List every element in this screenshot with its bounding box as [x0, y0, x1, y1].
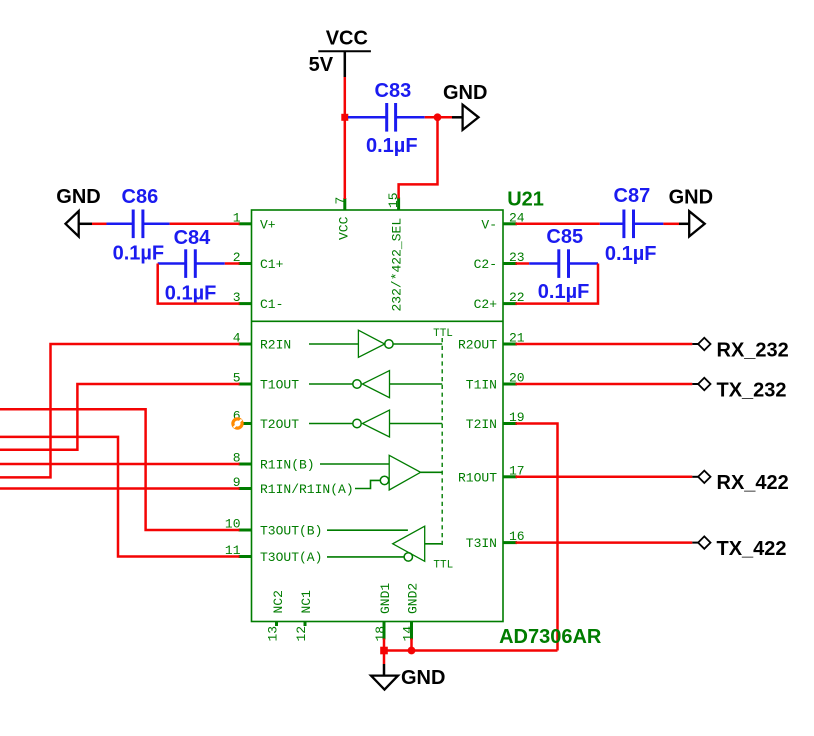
wire junction down to ground symbol: [383, 651, 386, 665]
svg-text:TX_422: TX_422: [717, 538, 787, 560]
pin 9 R1IN/R1IN(A): [233, 475, 354, 497]
svg-text:C2-: C2-: [474, 257, 497, 272]
svg-text:AD7306AR: AD7306AR: [499, 626, 602, 648]
svg-text:RX_422: RX_422: [717, 472, 789, 494]
svg-text:R1OUT: R1OUT: [458, 470, 497, 485]
svg-text:GND1: GND1: [378, 583, 393, 614]
svg-text:14: 14: [400, 626, 415, 642]
svg-text:12: 12: [294, 626, 309, 642]
svg-text:C85: C85: [546, 226, 583, 248]
svg-text:C87: C87: [614, 185, 651, 207]
op-amp U21 body (IC box AD7306AR): [252, 210, 504, 622]
pin 14 GND2 (bottom): [400, 583, 420, 642]
svg-text:R1IN/R1IN(A): R1IN/R1IN(A): [260, 482, 354, 497]
pin 19 T2IN: [466, 410, 525, 432]
wire pin 11 to left edge: [0, 437, 240, 557]
svg-text:VCC: VCC: [337, 216, 352, 240]
svg-text:U21: U21: [507, 188, 544, 210]
svg-text:C2+: C2+: [474, 297, 498, 312]
pin 3 C1-: [233, 290, 284, 312]
wire junction down to pin 15: [399, 117, 438, 198]
pin 11 T3OUT(A): [225, 543, 323, 565]
svg-text:T1IN: T1IN: [466, 378, 497, 393]
wire pin 21 to RX_232 connector: [516, 343, 693, 346]
wire pin 23 to C85: [516, 262, 530, 265]
net connector diamond TX_422: [692, 536, 786, 560]
pin 8 R1IN(B): [233, 451, 315, 473]
wire pin 16 to TX_422 connector: [516, 541, 693, 544]
ground rail wire: [384, 649, 558, 652]
svg-text:0.1µF: 0.1µF: [538, 281, 590, 303]
wire C84 right to pin 2: [225, 262, 240, 265]
capacitor C85: [529, 226, 598, 303]
svg-text:NC1: NC1: [299, 590, 314, 614]
svg-text:T3OUT(A): T3OUT(A): [260, 550, 322, 565]
pin 18 GND1 (bottom): [373, 583, 393, 642]
svg-text:T2OUT: T2OUT: [260, 417, 299, 432]
pin 2 C1+: [233, 250, 284, 272]
svg-text:T3IN: T3IN: [466, 536, 497, 551]
svg-text:C84: C84: [174, 227, 212, 249]
svg-text:V+: V+: [260, 217, 276, 232]
svg-text:R2IN: R2IN: [260, 338, 291, 353]
svg-text:T1OUT: T1OUT: [260, 378, 299, 393]
pin 20 T1IN: [466, 371, 525, 393]
pin 6 T2OUT: [233, 409, 300, 432]
receiver gate R1 inside U21: [320, 455, 442, 490]
capacitor C86: [107, 186, 170, 265]
svg-text:GND: GND: [669, 187, 713, 209]
wire pin 20 to TX_232 connector: [516, 383, 693, 386]
wire GND to C86: [92, 223, 107, 226]
pin 10 T3OUT(B): [225, 517, 323, 539]
junction C83/GND (round): [434, 113, 442, 121]
capacitor C83: [348, 80, 425, 157]
svg-text:0.1µF: 0.1µF: [113, 243, 165, 265]
wire pin 10 to left edge: [0, 409, 240, 530]
ground symbol bottom (GND): [371, 664, 445, 690]
pin 15 232/*422_SEL (top): [386, 192, 405, 311]
junction VCC/C83 (square): [341, 114, 348, 121]
wire C84 left down to pin 3: [158, 264, 240, 304]
svg-text:T2IN: T2IN: [466, 417, 497, 432]
svg-text:VCC: VCC: [326, 28, 368, 50]
wire pin 17 to RX_422 connector: [516, 476, 693, 479]
svg-text:C86: C86: [122, 186, 159, 208]
junction GND2/rail (round): [408, 647, 416, 655]
dashed TTL boundary line inside U21: [441, 338, 443, 548]
wire C85 right down to pin 22: [516, 264, 599, 304]
svg-text:R2OUT: R2OUT: [458, 338, 497, 353]
inverter gate T2 inside U21: [309, 410, 442, 437]
driver gate T3 inside U21: [327, 526, 441, 561]
svg-text:GND: GND: [56, 186, 100, 208]
pin 13 NC2 (bottom): [266, 590, 286, 641]
svg-text:13: 13: [266, 626, 281, 642]
svg-text:C1-: C1-: [260, 297, 283, 312]
wire pin 14 GND2 down: [410, 639, 413, 651]
svg-text:18: 18: [373, 626, 388, 642]
inverter gate T1 inside U21: [309, 371, 442, 398]
pin 7 VCC (top): [333, 197, 352, 240]
pin 22 C2+: [474, 290, 525, 312]
net connector diamond TX_232: [692, 378, 786, 402]
svg-text:GND2: GND2: [405, 583, 420, 614]
pin 4 R2IN: [233, 331, 292, 353]
wire pin 18 GND1 down: [383, 639, 386, 651]
svg-text:TTL: TTL: [433, 328, 453, 340]
svg-text:NC2: NC2: [271, 590, 286, 613]
wire VCC to pin 7: [344, 77, 347, 199]
wire C87 to GND: [663, 223, 679, 226]
svg-text:T3OUT(B): T3OUT(B): [260, 524, 322, 539]
VCC power symbol: [309, 28, 371, 78]
pin 17 R1OUT: [458, 463, 525, 485]
pin 24 V-: [481, 210, 524, 232]
capacitor C87: [600, 185, 664, 265]
svg-text:GND: GND: [401, 667, 445, 689]
net connector diamond RX_232: [692, 338, 788, 362]
net connector diamond RX_422: [692, 471, 788, 495]
wire pin 24 to C87: [516, 223, 600, 226]
pin 5 T1OUT: [233, 371, 300, 393]
svg-text:0.1µF: 0.1µF: [366, 135, 418, 157]
pin 21 R2OUT: [458, 331, 525, 353]
pin 16 T3IN: [466, 529, 525, 551]
pin 23 C2-: [474, 250, 525, 272]
svg-text:TX_232: TX_232: [717, 379, 787, 401]
wire pin 9 to left edge: [0, 487, 240, 490]
wire C83 right to GND junction: [425, 116, 452, 119]
capacitor C84: [158, 227, 225, 305]
svg-text:R1IN(B): R1IN(B): [260, 458, 315, 473]
wire pin 19 down to ground rail: [516, 424, 558, 651]
ground symbol top right (GND near C83): [443, 82, 487, 130]
svg-text:RX_232: RX_232: [717, 339, 789, 361]
ground symbol left (GND near C86): [56, 186, 100, 236]
wire pin 4 to left edge: [0, 344, 240, 477]
svg-text:C83: C83: [375, 80, 412, 102]
svg-text:C1+: C1+: [260, 257, 284, 272]
pin 12 NC1 (bottom): [294, 590, 314, 642]
wire pin 8 to left edge: [0, 463, 240, 466]
svg-text:0.1µF: 0.1µF: [605, 243, 657, 265]
inverter gate R2 inside U21: [309, 330, 442, 357]
svg-text:V-: V-: [481, 217, 497, 232]
no-connect marker on pin 6: [233, 419, 242, 428]
ground symbol right (GND near C87): [669, 187, 713, 237]
pin 1 V+: [233, 210, 276, 232]
svg-text:TTL: TTL: [433, 560, 453, 572]
svg-text:232/*422_SEL: 232/*422_SEL: [389, 218, 404, 312]
junction GND1/rail (square): [380, 647, 388, 655]
svg-text:0.1µF: 0.1µF: [165, 283, 217, 305]
wire pin 5 to left edge: [0, 384, 240, 450]
svg-text:GND: GND: [443, 82, 487, 104]
svg-text:5V: 5V: [309, 54, 334, 76]
wire C86 to pin 1: [170, 223, 240, 226]
